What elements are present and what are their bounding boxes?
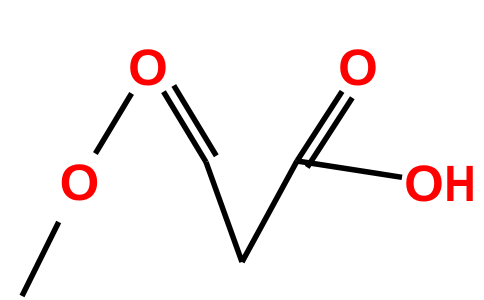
svg-text:H: H (444, 156, 475, 213)
svg-text:O: O (128, 39, 168, 96)
bond C3=O2 double (297, 91, 352, 167)
bond C1-C2 (206, 162, 242, 262)
svg-text:O: O (60, 154, 100, 211)
svg-text:O: O (338, 39, 378, 96)
bond C1=O1 double (164, 86, 217, 163)
bond C2-C3 (242, 161, 297, 262)
bond C3-OH (297, 161, 402, 177)
bond CH3-O(ester) stub (22, 222, 59, 296)
bond O(ester)-O1 steep (95, 93, 131, 153)
svg-text:O: O (404, 155, 444, 212)
